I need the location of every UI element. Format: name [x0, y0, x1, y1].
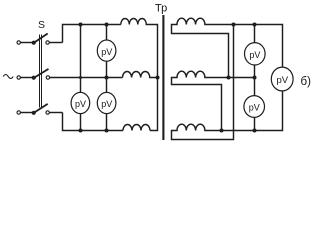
- svg-text:pV: pV: [249, 103, 260, 113]
- svg-text:pV: pV: [249, 50, 260, 60]
- svg-text:pV: pV: [276, 75, 288, 86]
- svg-text:pV: pV: [101, 47, 112, 57]
- svg-text:б): б): [301, 76, 312, 88]
- svg-text:pV: pV: [75, 99, 86, 109]
- svg-text:S: S: [38, 19, 45, 31]
- svg-text:Тр: Тр: [155, 3, 167, 15]
- svg-text:pV: pV: [101, 99, 112, 109]
